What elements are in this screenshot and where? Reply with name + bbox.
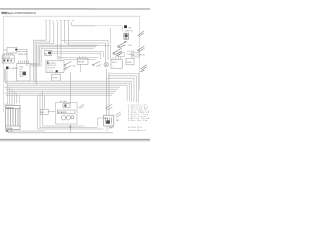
middle row box (turn relay) (77, 58, 88, 64)
right cluster drop wires (110, 27, 122, 44)
svg-text:HORN12V: HORN12V (136, 54, 145, 56)
tick on switch left edge (47, 61, 48, 64)
drops from bus to lower middle (38, 91, 104, 129)
page top edge (0, 7, 150, 10)
svg-text:HORN: HORN (52, 78, 58, 80)
connector row dark pins (4, 60, 6, 62)
stator bar band (57, 110, 75, 114)
svg-text:12345b: 12345b (6, 128, 12, 130)
battery left lead (98, 118, 104, 126)
footer tick (110, 126, 113, 128)
lever symbol lower right margin (140, 65, 147, 72)
svg-text:W G: W G (20, 76, 24, 78)
svg-text:F1 F2 F3: F1 F2 F3 (3, 57, 10, 59)
brush sub-box dark mark (64, 105, 66, 107)
harness connector pin labels (45, 20, 74, 23)
ignition coil dark mark (48, 52, 51, 55)
alternator ground lead (69, 124, 71, 133)
svg-text:1 2 3 4: 1 2 3 4 (47, 70, 53, 72)
main switch box (46, 61, 64, 73)
svg-text:AC GEN: AC GEN (60, 100, 68, 103)
svg-text:9 Main fuse 20A: 9 Main fuse 20A (128, 119, 148, 122)
connector block dark core (23, 72, 26, 76)
battery vent diagonal marks (116, 112, 121, 117)
battery feed verticals (107, 69, 109, 115)
bottom long ground wire (8, 132, 113, 134)
ticks above turn relay (79, 56, 85, 59)
condenser circle (57, 57, 60, 60)
small terminal box upper (132, 53, 140, 57)
handlebar connector block (17, 60, 31, 81)
rotor coils (61, 116, 74, 120)
left fuse box (3, 48, 27, 66)
title leading word darker (1, 12, 7, 14)
battery dark cell blob (106, 120, 110, 123)
wire: top feed to right cluster (61, 26, 122, 63)
main switch internal contact text (47, 63, 56, 73)
arrow lever crossing frame (138, 31, 144, 37)
indicator blob on fuse box (15, 49, 17, 51)
marks below terminal strip (6, 130, 9, 132)
svg-text:FLASHER: FLASHER (9, 67, 18, 70)
wire: main switch to aux box (55, 72, 57, 74)
svg-text:REL AY: REL AY (78, 60, 85, 63)
small hatched connector below junction (124, 33, 129, 39)
svg-text:MAIN SW: MAIN SW (125, 30, 133, 33)
svg-text:GND: GND (9, 131, 14, 133)
drops from bus to terminal box (7, 85, 19, 103)
fuse block right (126, 59, 134, 65)
harness wire drops from top connector (46, 22, 72, 61)
bracket terminal box top (118, 53, 124, 57)
brush sub-box (63, 104, 70, 108)
horn symbol right margin (138, 46, 145, 52)
ground symbol (69, 126, 72, 127)
ignition coil block (45, 50, 52, 55)
svg-text:DIM: DIM (72, 65, 76, 67)
rectifier output nested bends (106, 73, 139, 102)
junction connector blob (124, 25, 127, 28)
svg-text:MAIN 20A: MAIN 20A (18, 53, 27, 56)
svg-text:FUSE: FUSE (127, 62, 133, 64)
connector block terminal rows (20, 67, 24, 79)
vertical: relay down to bus (79, 64, 81, 72)
alternator enclosure (56, 103, 78, 125)
vertical: middle to alternator (69, 72, 71, 103)
diagonal hatch marks lower middle (78, 104, 84, 109)
main switch dark key blob (56, 70, 58, 72)
brush box left of alternator (40, 109, 48, 114)
auxiliary box under main switch (52, 74, 61, 81)
svg-text:RWBrGY: RWBrGY (6, 106, 14, 109)
flasher relay blob (6, 67, 9, 70)
small lamp component above battery feed (104, 62, 108, 66)
ticks above rectifier (113, 57, 121, 59)
nested bends: upper-left wire corners (30, 40, 98, 85)
battery bottom stub (106, 126, 108, 131)
page bottom edge band (0, 139, 150, 140)
svg-text:IG LO HI: IG LO HI (47, 68, 55, 70)
svg-text:WYBWYB: WYBWYB (58, 112, 67, 114)
stub below terminal strip (8, 129, 45, 132)
legend list (128, 104, 150, 122)
kill switch (double lever) (113, 48, 122, 56)
svg-text:Yamaha Motor Co: Yamaha Motor Co (128, 129, 146, 132)
terminal strip box (6, 105, 20, 129)
wire brush box to alternator (48, 111, 55, 113)
starter relay diagonal marks above battery (106, 104, 113, 110)
rectifier box (111, 59, 122, 68)
top right switch cluster: ignition switch (118, 41, 126, 48)
border frame (3, 16, 139, 112)
left connector row boxes (2, 53, 14, 63)
upper harness bundle to right side (52, 51, 103, 59)
battery box (104, 115, 114, 126)
svg-text:6N4: 6N4 (116, 120, 119, 122)
middle lever switch symbol (64, 61, 71, 69)
main bus lines (5, 81, 132, 101)
bus left risers (5, 69, 7, 85)
middle-right lever switch (93, 61, 102, 66)
